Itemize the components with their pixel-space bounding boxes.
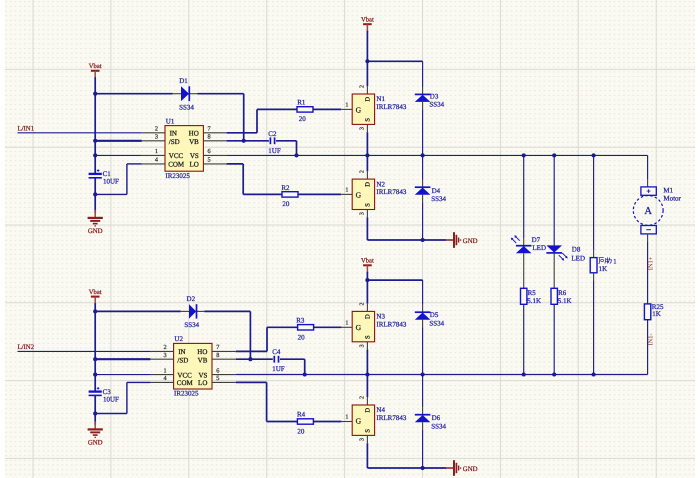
U2 pin 5 stub <box>212 381 236 383</box>
svg-text:2: 2 <box>360 396 366 399</box>
svg-text:G: G <box>356 323 362 332</box>
U1 pin 7 stub <box>203 132 226 134</box>
svg-text:D: D <box>364 314 371 319</box>
wire N4 source GND run <box>367 467 446 469</box>
resistor R1 <box>297 107 313 112</box>
svg-text:G: G <box>356 191 362 200</box>
diode D1 SS34 <box>181 86 189 101</box>
svg-text:7: 7 <box>208 125 211 132</box>
svg-text:20: 20 <box>298 333 306 341</box>
wire Vbat to U2 pin 3 (/SD) <box>95 358 150 360</box>
junction VS/R6 <box>552 372 556 376</box>
diode D4 SS34 <box>415 187 431 195</box>
wire Vbat to branch node <box>366 272 368 280</box>
svg-text:SS34: SS34 <box>429 319 444 327</box>
wire R5 to lower rail <box>523 304 525 374</box>
wire R3 to N3 gate <box>314 326 342 328</box>
junction D6/GND run <box>421 466 425 470</box>
svg-text:IN: IN <box>170 129 177 137</box>
D8 cathode stub <box>553 253 555 288</box>
svg-text:LED: LED <box>532 244 546 252</box>
svg-text:GND: GND <box>463 466 478 473</box>
wire VS lower rail to N4 drain <box>366 375 368 398</box>
U1 pin 5 stub <box>203 163 226 165</box>
svg-text:D3: D3 <box>430 92 439 100</box>
svg-text:2: 2 <box>163 344 166 351</box>
wire D2 cathode to VB node <box>204 310 250 312</box>
wire U1 LO to R2 <box>227 163 244 165</box>
svg-text:IRLR7843: IRLR7843 <box>376 188 406 196</box>
junction VS/varistor <box>592 153 596 157</box>
resistor R25 <box>644 304 650 320</box>
svg-text:SS34: SS34 <box>431 423 446 431</box>
wire R2 to N2 gate <box>298 193 341 195</box>
svg-text:5.1K: 5.1K <box>527 297 541 305</box>
U1 pin 2 stub <box>142 132 165 134</box>
junction VS/D8 <box>552 153 556 157</box>
svg-text:M1: M1 <box>663 187 673 195</box>
junction Vbat/VCC <box>93 153 97 157</box>
svg-text:20: 20 <box>297 427 305 435</box>
svg-text:VS: VS <box>190 152 199 160</box>
diode D5 SS34 <box>415 312 431 320</box>
svg-text:1: 1 <box>163 367 166 374</box>
wire top rail to D3 <box>367 60 422 62</box>
D4 anode stub <box>422 195 424 203</box>
ground GND lower-left <box>88 421 103 446</box>
svg-text:5: 5 <box>216 375 219 382</box>
svg-text:GND: GND <box>88 228 103 235</box>
svg-text:D: D <box>364 182 371 187</box>
svg-text:1: 1 <box>345 188 348 194</box>
junction VS/D3-D4 <box>421 153 425 157</box>
svg-text:3: 3 <box>360 344 366 347</box>
wire D5 to VS lower rail <box>422 327 424 374</box>
svg-text:Vbat: Vbat <box>89 63 102 70</box>
svg-text:3: 3 <box>360 127 366 130</box>
wire C3 to GND <box>94 395 96 424</box>
wire D8 branch from VS rail <box>553 155 555 245</box>
wire U1 HO to R1 <box>227 132 257 134</box>
capacitor C4 1UF <box>274 356 278 363</box>
svg-text:VCC: VCC <box>177 371 192 379</box>
junction VS/D5-D6 <box>421 372 425 376</box>
svg-text:8: 8 <box>216 352 219 359</box>
wire C1 to GND <box>94 178 96 213</box>
svg-text:Vbat: Vbat <box>89 289 102 296</box>
svg-text:1: 1 <box>613 258 616 265</box>
N2 drain stub <box>366 171 368 179</box>
wire L/IN2 to U2 pin 2 <box>18 350 151 352</box>
junction VS/R5 <box>522 372 526 376</box>
N4 source stub <box>366 435 368 443</box>
wire VS rail to D4 cathode <box>422 155 424 179</box>
svg-text:Vbat: Vbat <box>361 258 374 265</box>
motor M1 <box>633 187 663 234</box>
wire U2 HO to R3 <box>236 350 267 352</box>
svg-text:IRLR7843: IRLR7843 <box>376 414 406 422</box>
junction D4/GND run <box>421 238 425 242</box>
svg-text:D8: D8 <box>572 246 581 254</box>
svg-text:D5: D5 <box>430 311 439 319</box>
svg-text:2: 2 <box>360 85 366 88</box>
varistor stub bottom <box>593 273 595 280</box>
junction Vbat //SD <box>93 139 97 143</box>
N1 gate stub <box>341 108 352 110</box>
svg-text:3: 3 <box>360 212 366 215</box>
wire D1 cathode to VB node <box>198 93 244 95</box>
ground GND upper-left <box>88 210 103 235</box>
D3 cathode stub <box>422 87 424 94</box>
wire Vbat to top rail <box>366 31 368 62</box>
U2 pin 3 stub <box>150 358 173 360</box>
svg-text:7: 7 <box>216 344 219 351</box>
svg-text:1: 1 <box>345 103 348 109</box>
N2 source stub <box>366 210 368 218</box>
wire VS rail corner to motor + <box>647 155 649 179</box>
svg-text:LED: LED <box>571 254 585 262</box>
svg-text:Vbat: Vbat <box>361 17 374 24</box>
N1 drain stub <box>366 86 368 94</box>
svg-text:IRLR7843: IRLR7843 <box>376 320 406 328</box>
wire to D1 anode <box>95 93 173 95</box>
svg-text:5: 5 <box>208 157 211 164</box>
junction C3-/GND node <box>93 411 97 415</box>
diode D2 SS34 pin stubs <box>181 310 189 312</box>
svg-text:S: S <box>364 203 371 207</box>
junction C4/VS lower <box>303 372 307 376</box>
svg-text:Motor: Motor <box>663 194 681 202</box>
svg-text:D: D <box>364 408 371 413</box>
svg-text:D: D <box>364 97 371 102</box>
svg-text:1K: 1K <box>599 265 608 273</box>
svg-text:R5: R5 <box>528 289 537 297</box>
wire R1 to N1 gate <box>313 108 341 110</box>
svg-text:10UF: 10UF <box>103 395 119 403</box>
svg-text:1UF: 1UF <box>272 365 285 373</box>
power Vbat lower-left <box>89 289 102 304</box>
diode D1 SS34 pin stubs <box>173 93 181 95</box>
N3 drain stub <box>366 304 368 312</box>
U2 pin 2 stub <box>150 350 173 352</box>
svg-text:/SD: /SD <box>169 138 180 146</box>
svg-text:LO: LO <box>189 161 198 169</box>
wire VS lower rail to D6 cathode <box>422 375 424 408</box>
svg-text:2: 2 <box>155 125 158 132</box>
varistor 1K <box>590 258 597 273</box>
junction Vbat/D1 <box>93 92 97 96</box>
junction D2/VB lower <box>248 357 252 361</box>
svg-text:VS: VS <box>198 371 207 379</box>
svg-text:1: 1 <box>345 321 348 327</box>
wire varistor branch from VS rail <box>593 155 595 250</box>
D7 anode stub <box>523 253 525 288</box>
diode D2 SS34 <box>189 304 197 318</box>
svg-text:D6: D6 <box>432 414 441 422</box>
LED D7 <box>516 246 532 254</box>
svg-text:1: 1 <box>155 148 158 155</box>
transistor N1 IRLR7843 <box>352 94 374 124</box>
svg-text:R4: R4 <box>297 411 306 419</box>
capacitor C3 10UF <box>89 387 102 395</box>
N4 drain stub <box>366 397 368 405</box>
wire R6 to lower rail <box>553 304 555 374</box>
svg-text:R1: R1 <box>297 99 306 107</box>
wire D6 anode to GND run <box>422 430 424 468</box>
wire motor to R25 <box>647 241 649 304</box>
U1 pin 6 stub <box>203 154 226 156</box>
svg-text:D7: D7 <box>532 236 541 244</box>
U2 pin 6 stub <box>212 374 236 376</box>
svg-text:C4: C4 <box>272 348 281 356</box>
LED D7 arrows <box>511 235 520 243</box>
resistor R2 <box>282 192 298 197</box>
svg-text:5.1K: 5.1K <box>558 297 572 305</box>
svg-text:3: 3 <box>163 352 166 359</box>
svg-text:IN1+: IN1+ <box>647 256 654 270</box>
ground GND at N4 source <box>446 460 478 476</box>
transistor N4 IRLR7843 <box>352 405 374 435</box>
U1 pin 8 stub <box>203 140 226 142</box>
transistor N3 IRLR7843 <box>352 311 374 341</box>
wire Vbat to U1 pin 1 (VCC) <box>95 154 142 156</box>
wire N4 source down to GND run <box>366 443 368 468</box>
wire varistor to lower rail <box>593 280 595 374</box>
varistor stub top <box>593 250 595 258</box>
junction VS/varistor lower <box>592 372 596 376</box>
wire N3 source to VS lower rail <box>366 350 368 375</box>
label varistor <box>598 257 611 263</box>
svg-text:IR23025: IR23025 <box>165 172 190 180</box>
U1 pin names <box>168 129 199 168</box>
junction C1-/GND node <box>93 192 97 196</box>
D4 cathode stub <box>422 180 424 187</box>
wire Vbat vertical lower-left <box>94 303 96 391</box>
wire N1 source to VS rail <box>366 132 368 155</box>
wire D3 to VS rail <box>422 110 424 156</box>
svg-text:3: 3 <box>360 438 366 441</box>
svg-text:IN: IN <box>178 348 185 356</box>
resistor R3 <box>298 325 314 330</box>
power Vbat lower-right <box>361 258 374 273</box>
wire Vbat down to N1 drain <box>366 61 368 86</box>
wire L/IN1 to U1 pin 2 <box>18 132 142 134</box>
power Vbat upper-right <box>361 17 374 32</box>
svg-text:GND: GND <box>463 238 478 245</box>
wire U1 COM to ground node <box>127 163 142 165</box>
LED D8 arrows <box>559 253 568 261</box>
svg-text:SS34: SS34 <box>184 321 199 329</box>
capacitor C2 1UF <box>270 137 274 144</box>
junction Vbat branch lower-right <box>365 278 369 282</box>
wire C2 to VS <box>276 140 296 142</box>
N3 gate stub <box>341 326 352 328</box>
op-amp U1 IR23025 body <box>165 126 203 172</box>
svg-text:SS34: SS34 <box>429 101 444 109</box>
U1 pin 4 stub <box>142 163 165 165</box>
svg-text:1K: 1K <box>652 310 661 318</box>
svg-text:LO: LO <box>198 379 207 387</box>
resistor R6 <box>551 288 557 304</box>
junction Vbat top rail <box>365 59 369 63</box>
svg-text:/SD: /SD <box>177 356 188 364</box>
svg-text:3: 3 <box>155 134 158 141</box>
wire VS rail to N2 drain <box>366 155 368 171</box>
junction C2/VS <box>294 153 298 157</box>
svg-text:G: G <box>356 105 362 114</box>
svg-text:D4: D4 <box>432 187 441 195</box>
D6 anode stub <box>422 422 424 430</box>
junction D1/VB <box>242 139 246 143</box>
junction Vbat //SD lower <box>93 357 97 361</box>
N3 source stub <box>366 342 368 350</box>
wire VS rail lower (phase node) <box>236 374 648 376</box>
D7 cathode stub <box>523 238 525 246</box>
svg-text:L/IN1: L/IN1 <box>18 125 35 132</box>
wire N2 source GND run <box>367 239 446 241</box>
svg-text:VB: VB <box>189 138 199 146</box>
svg-text:S: S <box>364 335 371 339</box>
wire D4 anode to GND run <box>422 202 424 240</box>
svg-text:HO: HO <box>189 129 199 137</box>
svg-text:VB: VB <box>198 356 208 364</box>
wire U1 VB to C2 <box>227 140 269 142</box>
svg-text:2: 2 <box>360 303 366 306</box>
junction VS/D7 <box>522 153 526 157</box>
N1 source stub <box>366 124 368 132</box>
D6 cathode stub <box>422 407 424 415</box>
svg-text:L/IN2: L/IN2 <box>18 344 35 351</box>
U1 pin 1 stub <box>142 154 165 156</box>
D3 anode stub <box>422 102 424 110</box>
svg-text:IN1-: IN1- <box>647 333 654 345</box>
wire Vbat vertical upper-left <box>94 77 96 173</box>
U2 pin 7 stub <box>212 350 236 352</box>
N2 gate stub <box>341 193 352 195</box>
svg-text:A: A <box>644 206 652 217</box>
svg-text:SS34: SS34 <box>179 103 194 111</box>
op-amp U2 IR23025 body <box>174 343 212 389</box>
capacitor C1 10UF <box>89 169 102 178</box>
U2 pin names <box>177 348 208 387</box>
wire Vbat to U2 pin 1 (VCC) <box>95 374 150 376</box>
wire U2 VB to C4 <box>236 358 273 360</box>
svg-text:R6: R6 <box>558 289 567 297</box>
LED D8 (pointing down) <box>546 245 562 253</box>
U2 pin 4 stub <box>150 381 173 383</box>
svg-text:IRLR7843: IRLR7843 <box>376 103 406 111</box>
diode D3 SS34 <box>415 94 431 102</box>
svg-text:2: 2 <box>360 170 366 173</box>
D5 cathode stub <box>422 305 424 313</box>
svg-text:IR23025: IR23025 <box>174 390 199 398</box>
svg-text:S: S <box>364 118 371 122</box>
svg-text:20: 20 <box>282 200 290 208</box>
wire U2 LO to R4 <box>236 381 267 383</box>
wire VS rail upper (phase node) <box>227 154 648 156</box>
U2 pin 1 stub <box>150 374 173 376</box>
svg-text:20: 20 <box>299 115 307 123</box>
svg-text:1: 1 <box>345 415 348 421</box>
power Vbat upper-left <box>89 63 102 78</box>
svg-text:SS34: SS34 <box>431 195 446 203</box>
svg-text:HO: HO <box>197 348 207 356</box>
svg-text:U2: U2 <box>174 335 183 343</box>
resistor R5 <box>521 288 527 304</box>
wire Vbat down to N3 drain <box>366 280 368 304</box>
wire to D2 anode <box>95 310 181 312</box>
wire U2 COM to ground node <box>127 381 150 383</box>
junction Vbat/VCC lower <box>93 373 97 377</box>
svg-text:VCC: VCC <box>169 152 184 160</box>
resistor R4 <box>297 419 313 424</box>
svg-text:10UF: 10UF <box>103 178 119 186</box>
junction VS/N3-N4 <box>365 372 369 376</box>
svg-text:R2: R2 <box>281 184 290 192</box>
svg-text:R3: R3 <box>296 316 305 324</box>
svg-text:6: 6 <box>208 148 211 155</box>
wire R25 to lower rail <box>647 320 649 375</box>
diode D6 SS34 <box>415 415 431 423</box>
ground GND at N2 source <box>446 232 478 248</box>
wire Vbat to U1 pin 3 (/SD) <box>95 140 142 142</box>
svg-text:C2: C2 <box>268 130 277 138</box>
motor M1 terminal + stub <box>647 179 649 187</box>
wire branch to D5 <box>367 279 422 281</box>
svg-text:COM: COM <box>177 379 194 387</box>
D5 anode stub <box>422 320 424 328</box>
wire C4 to VS lower <box>280 358 305 360</box>
junction Vbat/D2 <box>93 309 97 313</box>
svg-text:1UF: 1UF <box>268 147 281 155</box>
U1 pin 3 stub <box>142 140 165 142</box>
svg-text:COM: COM <box>168 161 185 169</box>
svg-text:U1: U1 <box>166 117 175 125</box>
wire D7 branch from VS rail <box>523 155 525 238</box>
svg-text:6: 6 <box>216 367 219 374</box>
svg-text:GND: GND <box>88 440 103 447</box>
svg-text:8: 8 <box>208 134 211 141</box>
svg-text:G: G <box>356 416 362 425</box>
svg-text:S: S <box>364 429 371 433</box>
wire R4 to N4 gate <box>313 421 341 423</box>
svg-text:D2: D2 <box>187 295 196 303</box>
motor - stub <box>647 234 649 242</box>
transistor N2 IRLR7843 <box>352 179 374 209</box>
junction VS/N1-N2 <box>365 153 369 157</box>
wire N2 source down to GND run <box>366 217 368 240</box>
svg-text:D1: D1 <box>179 77 188 85</box>
N4 gate stub <box>341 421 352 423</box>
U2 pin 8 stub <box>212 358 236 360</box>
